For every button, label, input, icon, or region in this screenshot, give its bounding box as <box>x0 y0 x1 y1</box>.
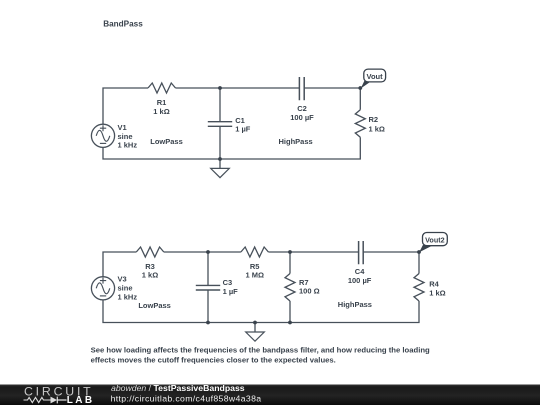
svg-text:1 µF: 1 µF <box>235 124 251 133</box>
svg-text:See how loading affects the fr: See how loading affects the frequencies … <box>91 346 430 355</box>
svg-text:sine: sine <box>118 284 133 293</box>
wire C3 top branch <box>207 252 209 285</box>
node dot C1 bottom / ground <box>218 157 222 161</box>
footer black bar <box>0 385 540 406</box>
label R3 <box>142 262 158 280</box>
Vout2 flag <box>419 233 447 253</box>
caption text <box>91 346 430 365</box>
wire R5 right to C4 left plate <box>268 251 358 253</box>
label HighPass <box>338 300 372 309</box>
wire C1 bottom branch <box>219 126 221 159</box>
node dot ground (bottom) <box>253 321 257 325</box>
ground (bottom circuit) <box>246 323 265 342</box>
node dot C3 top <box>206 250 210 254</box>
svg-text:BandPass: BandPass <box>103 19 143 28</box>
svg-text:V1: V1 <box>118 123 127 132</box>
label C4 <box>348 267 372 285</box>
svg-text:100 Ω: 100 Ω <box>299 287 320 296</box>
wire C1 top branch <box>219 88 221 122</box>
logo resistor zigzag <box>24 397 51 402</box>
svg-text:C4: C4 <box>355 267 365 276</box>
resistor R2 <box>355 110 365 138</box>
resistor R3 <box>136 247 164 257</box>
svg-text:http://circuitlab.com/c4uf858w: http://circuitlab.com/c4uf858w4a38a <box>111 393 262 403</box>
node dot C3 bottom <box>206 321 210 325</box>
svg-text:abowden / TestPassiveBandpass: abowden / TestPassiveBandpass <box>111 383 245 393</box>
svg-text:HighPass: HighPass <box>338 300 372 309</box>
label R4 <box>429 280 445 298</box>
resistor R4 <box>414 274 424 302</box>
wire C3 bottom branch <box>207 290 209 323</box>
wire top-left from V3 top to R3 left <box>103 252 136 277</box>
svg-text:1 kΩ: 1 kΩ <box>153 107 169 116</box>
wire R7 bottom branch <box>289 301 291 323</box>
node dot C1 top <box>218 86 222 90</box>
svg-text:C2: C2 <box>297 104 307 113</box>
svg-text:R1: R1 <box>157 98 167 107</box>
svg-text:100 µF: 100 µF <box>290 113 314 122</box>
wire R4 bottom along bottom rail to V3 bottom <box>103 300 419 322</box>
wire top-left from V1 top to R1 left <box>103 88 148 124</box>
svg-text:1 kΩ: 1 kΩ <box>429 289 445 298</box>
svg-text:100 µF: 100 µF <box>348 276 372 285</box>
label LowPass <box>150 137 183 146</box>
capacitor C4 <box>359 241 364 264</box>
resistor R7 <box>285 274 295 302</box>
resistor R1 <box>148 83 176 93</box>
capacitor C2 <box>299 77 304 100</box>
capacitor C1 <box>208 122 232 127</box>
label C2 <box>290 104 314 122</box>
wire R3 right to R5 left <box>164 251 241 253</box>
voltage source V3 <box>91 277 114 300</box>
bottom circuit labels <box>118 262 446 310</box>
svg-text:Vout: Vout <box>367 72 384 81</box>
node dot Vout <box>358 86 362 90</box>
ground (top circuit) <box>211 159 230 178</box>
label LowPass <box>138 301 171 310</box>
wire C4 right plate to Vout2 node to R4 top <box>363 252 419 274</box>
svg-text:1 µF: 1 µF <box>223 287 239 296</box>
svg-text:1 kHz: 1 kHz <box>118 141 138 150</box>
Vout flag <box>361 69 386 88</box>
label C3 <box>223 278 239 296</box>
wire C2 right plate to Vout node to R2 top <box>304 88 360 110</box>
capacitor C3 <box>196 285 220 290</box>
svg-text:1 kΩ: 1 kΩ <box>369 125 385 134</box>
svg-text:V3: V3 <box>118 275 127 284</box>
svg-text:LowPass: LowPass <box>138 301 171 310</box>
svg-text:R4: R4 <box>429 280 439 289</box>
svg-text:1 kHz: 1 kHz <box>118 293 138 302</box>
label R1 <box>153 98 169 116</box>
svg-text:LowPass: LowPass <box>150 137 183 146</box>
svg-text:1 kΩ: 1 kΩ <box>142 271 158 280</box>
svg-text:HighPass: HighPass <box>279 137 313 146</box>
top circuit labels <box>118 98 385 150</box>
label V3 <box>118 275 138 302</box>
label R5 <box>245 262 264 280</box>
svg-text:R2: R2 <box>369 115 379 124</box>
resistor R5 <box>241 247 269 257</box>
node dot R7 bottom <box>288 321 292 325</box>
node dot R7 top <box>288 250 292 254</box>
svg-text:effects moves the cutoff frequ: effects moves the cutoff frequencies clo… <box>91 355 336 364</box>
logo diode symbol <box>51 397 67 404</box>
svg-text:1 MΩ: 1 MΩ <box>245 271 264 280</box>
label R2 <box>369 115 385 133</box>
svg-text:C3: C3 <box>223 278 233 287</box>
label R7 <box>299 278 320 296</box>
svg-text:Vout2: Vout2 <box>425 236 444 245</box>
wire R1 right to C2 left plate <box>176 87 300 89</box>
svg-text:LAB: LAB <box>67 395 95 405</box>
label C1 <box>235 116 251 133</box>
label V1 <box>118 123 138 150</box>
node dot Vout2 <box>417 250 421 254</box>
wire R7 top branch <box>289 252 291 274</box>
label HighPass <box>279 137 313 146</box>
voltage source V1 <box>91 124 114 147</box>
wire R2 bottom along bottom rail to V1 bottom <box>103 137 360 159</box>
